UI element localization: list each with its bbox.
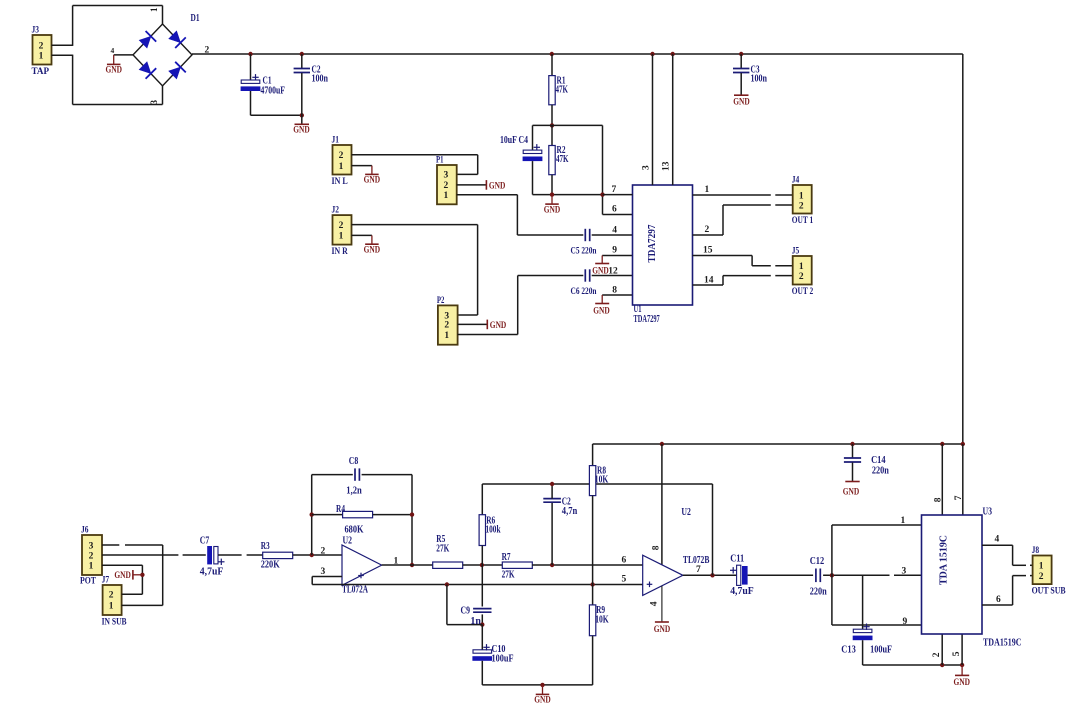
svg-text:C7: C7	[200, 535, 210, 546]
svg-text:J7: J7	[102, 576, 110, 586]
svg-text:C9: C9	[461, 605, 471, 616]
svg-text:4,7n: 4,7n	[562, 506, 578, 517]
svg-text:P1: P1	[436, 156, 444, 166]
svg-text:8: 8	[934, 497, 944, 502]
svg-text:2: 2	[339, 151, 344, 161]
svg-text:U3: U3	[983, 507, 993, 518]
svg-text:OUT SUB: OUT SUB	[1032, 586, 1067, 596]
svg-text:1: 1	[89, 562, 94, 572]
svg-text:C8: C8	[349, 456, 359, 467]
svg-text:8: 8	[652, 545, 662, 550]
svg-text:J1: J1	[332, 136, 340, 146]
svg-text:GND: GND	[654, 625, 671, 635]
svg-text:2: 2	[39, 42, 44, 52]
svg-text:100uF: 100uF	[870, 644, 892, 655]
svg-text:8: 8	[612, 286, 617, 296]
svg-text:100n: 100n	[751, 74, 768, 85]
svg-text:U2: U2	[343, 535, 353, 546]
svg-text:6: 6	[612, 205, 617, 215]
svg-text:3: 3	[321, 567, 326, 577]
svg-text:4700uF: 4700uF	[261, 86, 286, 97]
svg-text:1: 1	[799, 191, 804, 201]
svg-text:100uF: 100uF	[492, 653, 514, 664]
svg-text:J8: J8	[1032, 546, 1040, 556]
svg-text:10K: 10K	[595, 475, 609, 486]
svg-text:1: 1	[901, 516, 906, 526]
svg-text:4,7uF: 4,7uF	[730, 586, 754, 597]
svg-text:IN L: IN L	[332, 177, 348, 187]
svg-text:3: 3	[902, 567, 907, 577]
svg-text:C12: C12	[810, 556, 825, 567]
svg-text:15: 15	[703, 246, 713, 256]
svg-text:7: 7	[696, 565, 701, 575]
svg-text:13: 13	[662, 161, 672, 171]
svg-text:GND: GND	[489, 181, 506, 191]
svg-text:GND: GND	[534, 696, 551, 706]
svg-text:2: 2	[339, 221, 344, 231]
svg-text:5: 5	[952, 651, 962, 656]
svg-text:GND: GND	[364, 246, 381, 256]
svg-text:2: 2	[799, 272, 804, 282]
svg-text:R7: R7	[502, 552, 511, 563]
svg-text:GND: GND	[114, 571, 131, 581]
svg-text:C11: C11	[730, 554, 744, 565]
svg-text:220n: 220n	[810, 586, 827, 597]
svg-text:1: 1	[339, 232, 344, 242]
svg-text:7: 7	[954, 495, 964, 500]
svg-text:4: 4	[111, 46, 115, 55]
svg-text:220K: 220K	[261, 560, 280, 571]
svg-text:1: 1	[705, 185, 710, 195]
svg-text:1,2n: 1,2n	[346, 485, 362, 496]
svg-text:100n: 100n	[312, 74, 329, 85]
svg-text:2: 2	[321, 546, 326, 556]
svg-text:IN SUB: IN SUB	[102, 617, 128, 627]
svg-text:27K: 27K	[502, 569, 515, 580]
svg-text:GND: GND	[733, 98, 750, 108]
svg-text:2: 2	[89, 551, 94, 561]
svg-text:4: 4	[995, 535, 1000, 545]
svg-text:2: 2	[1039, 572, 1044, 582]
svg-text:9: 9	[612, 246, 617, 256]
svg-text:GND: GND	[490, 321, 507, 331]
svg-text:2: 2	[705, 225, 710, 235]
svg-text:1: 1	[1039, 562, 1044, 572]
svg-text:GND: GND	[364, 176, 381, 186]
svg-text:IN R: IN R	[332, 247, 348, 257]
svg-text:3: 3	[443, 171, 448, 181]
svg-text:C13: C13	[841, 644, 856, 655]
svg-text:D1: D1	[191, 13, 200, 24]
svg-text:U2: U2	[681, 507, 691, 518]
svg-text:1: 1	[149, 7, 159, 12]
svg-text:J3: J3	[32, 26, 40, 36]
svg-text:5: 5	[622, 575, 627, 585]
svg-text:9: 9	[903, 617, 908, 627]
svg-text:TAP: TAP	[32, 67, 50, 77]
svg-text:GND: GND	[593, 306, 610, 316]
svg-text:10K: 10K	[595, 615, 609, 626]
svg-text:1: 1	[339, 162, 344, 172]
svg-text:2: 2	[932, 652, 942, 657]
svg-text:J5: J5	[792, 247, 800, 257]
svg-text:7: 7	[612, 185, 617, 195]
svg-text:4,7uF: 4,7uF	[200, 566, 224, 577]
svg-text:220n: 220n	[872, 466, 889, 477]
svg-text:1: 1	[39, 52, 44, 62]
svg-text:1: 1	[443, 191, 448, 201]
svg-text:1: 1	[799, 262, 804, 272]
svg-text:6: 6	[996, 595, 1001, 605]
svg-text:OUT 2: OUT 2	[792, 287, 814, 297]
svg-text:TDA 1519C: TDA 1519C	[939, 535, 950, 585]
svg-text:TL072A: TL072A	[342, 585, 369, 596]
svg-text:680K: 680K	[345, 524, 364, 535]
svg-text:1n: 1n	[470, 616, 481, 627]
svg-text:4: 4	[650, 601, 660, 606]
svg-text:GND: GND	[293, 126, 310, 136]
svg-text:C5 220n: C5 220n	[571, 245, 597, 255]
svg-text:OUT 1: OUT 1	[792, 216, 814, 226]
svg-text:12: 12	[608, 266, 618, 276]
svg-text:47K: 47K	[556, 85, 569, 96]
svg-text:C6 220n: C6 220n	[571, 286, 597, 296]
svg-text:GND: GND	[592, 266, 609, 276]
svg-text:C14: C14	[871, 455, 886, 466]
svg-text:3: 3	[641, 165, 651, 170]
svg-text:TDA1519C: TDA1519C	[983, 638, 1022, 649]
svg-text:10uF C4: 10uF C4	[500, 135, 528, 146]
svg-text:4: 4	[612, 226, 617, 236]
svg-text:J6: J6	[81, 526, 89, 536]
svg-text:2: 2	[444, 321, 449, 331]
svg-text:GND: GND	[544, 205, 561, 215]
svg-text:1: 1	[444, 331, 449, 341]
svg-text:GND: GND	[953, 678, 970, 688]
svg-text:1: 1	[109, 602, 114, 612]
svg-text:R3: R3	[261, 541, 270, 552]
svg-text:TDA7297: TDA7297	[647, 225, 658, 263]
svg-text:R4: R4	[336, 504, 345, 515]
svg-text:POT: POT	[80, 577, 97, 587]
svg-text:3: 3	[149, 100, 159, 105]
svg-text:6: 6	[622, 556, 627, 566]
svg-text:J2: J2	[332, 206, 340, 216]
svg-text:3: 3	[89, 541, 94, 551]
svg-text:2: 2	[799, 201, 804, 211]
svg-text:TDA7297: TDA7297	[634, 314, 660, 325]
svg-text:2: 2	[109, 591, 114, 601]
svg-text:GND: GND	[843, 487, 860, 497]
svg-text:100k: 100k	[486, 525, 501, 536]
svg-text:47K: 47K	[556, 154, 569, 165]
svg-text:14: 14	[704, 275, 714, 285]
svg-text:J4: J4	[792, 176, 800, 186]
svg-text:2: 2	[443, 181, 448, 191]
svg-text:27K: 27K	[436, 543, 449, 554]
svg-text:P2: P2	[437, 296, 445, 306]
svg-text:GND: GND	[105, 66, 122, 76]
